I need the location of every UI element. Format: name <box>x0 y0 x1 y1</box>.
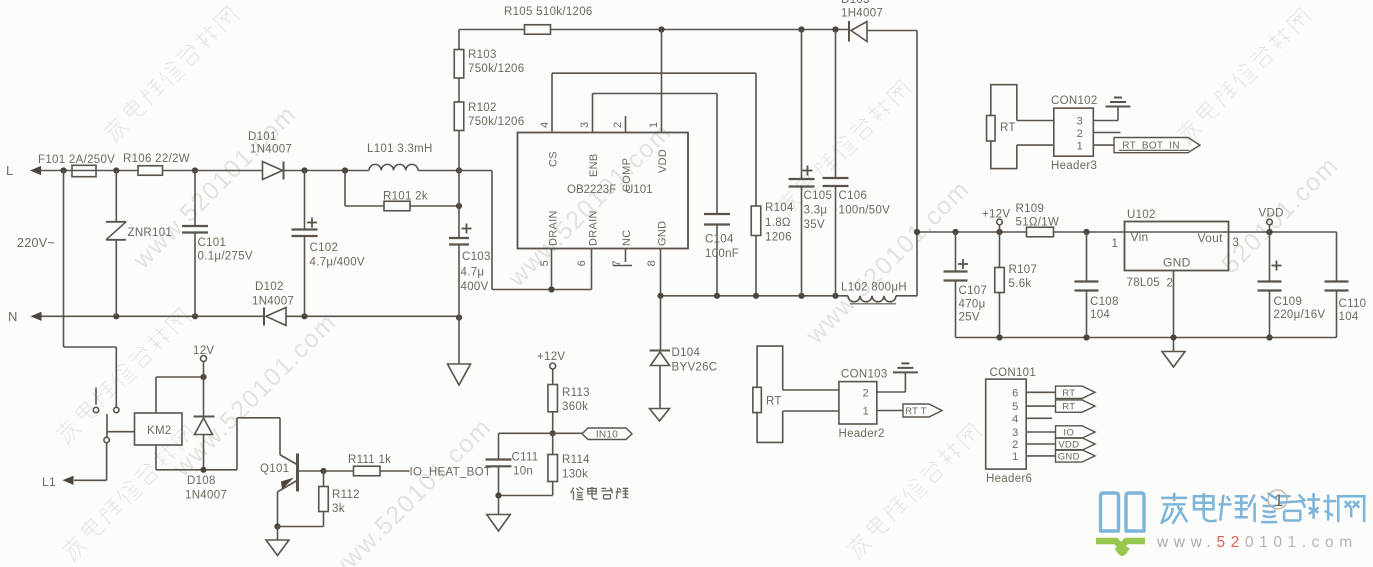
svg-text:R114: R114 <box>562 454 590 466</box>
node +12V <box>550 363 556 369</box>
wire <box>459 29 525 31</box>
svg-text:+12V: +12V <box>982 209 1010 221</box>
svg-text:8: 8 <box>646 260 658 266</box>
svg-text:RT: RT <box>1062 402 1075 413</box>
wire <box>458 30 460 50</box>
ground <box>650 409 670 422</box>
wire <box>755 236 757 296</box>
svg-text:GND: GND <box>1163 256 1191 270</box>
svg-text:360k: 360k <box>562 401 588 413</box>
svg-text:220V~: 220V~ <box>17 236 55 250</box>
svg-text:ZNR101: ZNR101 <box>128 227 173 239</box>
svg-text:GND: GND <box>657 221 669 246</box>
capacitor C105 <box>801 30 803 180</box>
wire <box>459 170 492 172</box>
svg-text:L: L <box>6 163 14 178</box>
svg-text:Header6: Header6 <box>986 473 1032 485</box>
svg-text:1206: 1206 <box>765 232 792 244</box>
pin 8 GND <box>660 249 662 296</box>
connector CON102 Header3 <box>1054 108 1094 156</box>
svg-text:100n/50V: 100n/50V <box>839 205 891 217</box>
wire <box>552 72 756 74</box>
resistor R111 <box>324 470 354 472</box>
node +12V <box>997 219 1003 225</box>
pin 4 CS <box>551 73 553 132</box>
wire <box>418 170 459 172</box>
wire <box>956 337 1337 339</box>
svg-text:78L05: 78L05 <box>1127 277 1160 289</box>
wire <box>1017 120 1054 122</box>
diode D108 <box>203 377 205 417</box>
wire <box>155 377 157 413</box>
relay KM2 coil <box>135 413 183 445</box>
diode D104 <box>660 296 662 351</box>
svg-text:1N4007: 1N4007 <box>185 490 227 502</box>
diode D103 <box>848 21 850 42</box>
svg-text:104: 104 <box>1090 309 1110 321</box>
svg-text:C104: C104 <box>705 234 734 246</box>
node 12V <box>201 356 207 362</box>
ground <box>458 318 460 365</box>
svg-text:3: 3 <box>1012 427 1018 439</box>
connector CON101 Header6 <box>986 379 1026 469</box>
wire <box>661 295 849 297</box>
svg-text:7: 7 <box>611 260 623 266</box>
svg-text:D101: D101 <box>248 131 277 143</box>
svg-text:220μ/16V: 220μ/16V <box>1274 309 1326 321</box>
svg-text:GND: GND <box>1058 452 1080 463</box>
svg-text:400V: 400V <box>461 281 489 293</box>
svg-text:0.1μ/275V: 0.1μ/275V <box>198 251 253 263</box>
svg-text:IN10: IN10 <box>596 430 618 441</box>
svg-text:D102: D102 <box>255 281 284 293</box>
svg-text:51Ω/1W: 51Ω/1W <box>1016 217 1060 229</box>
svg-text:R106 22/2W: R106 22/2W <box>123 153 190 165</box>
resistor R107 <box>999 232 1001 268</box>
svg-text:COMP: COMP <box>621 158 633 192</box>
pin 3 ENB <box>592 94 594 133</box>
svg-text:VDD: VDD <box>1259 208 1284 220</box>
wire <box>286 315 459 317</box>
svg-text:R109: R109 <box>1016 203 1045 215</box>
capacitor C107 <box>955 232 957 272</box>
svg-text:KM2: KM2 <box>147 425 172 437</box>
svg-text:1N4007: 1N4007 <box>250 144 292 156</box>
wire <box>1093 144 1114 146</box>
IC U102 78L05 regulator <box>1125 222 1229 271</box>
svg-text:DRAIN: DRAIN <box>548 210 560 246</box>
relay contact <box>114 407 119 412</box>
node VDD <box>1267 219 1273 225</box>
svg-text:3: 3 <box>579 122 591 128</box>
wire <box>63 171 65 348</box>
svg-text:www.520101.com: www.520101.com <box>167 308 342 483</box>
pin 7 NC <box>625 249 627 263</box>
resistor R112 <box>323 471 325 487</box>
svg-text:1H4007: 1H4007 <box>841 8 883 20</box>
svg-text:Vin: Vin <box>1131 230 1149 244</box>
IC U101 OB2223F PWM controller <box>518 133 689 249</box>
svg-text:+12V: +12V <box>537 351 565 363</box>
svg-text:3k: 3k <box>332 503 345 515</box>
svg-text:1.8Ω: 1.8Ω <box>765 217 791 229</box>
svg-text:2: 2 <box>612 122 624 128</box>
resistor R114 <box>552 433 554 454</box>
svg-text:N: N <box>8 309 18 324</box>
svg-text:5: 5 <box>1012 401 1018 413</box>
svg-text:R105 510k/1206: R105 510k/1206 <box>504 6 593 18</box>
wire <box>155 445 157 470</box>
wire <box>783 389 839 391</box>
svg-text:D108: D108 <box>187 475 216 487</box>
varistor ZNR101 <box>115 171 117 222</box>
svg-text:L101 3.3mH: L101 3.3mH <box>367 143 433 155</box>
svg-text:5.6k: 5.6k <box>1009 278 1032 290</box>
wire <box>163 170 263 172</box>
wire <box>917 231 1337 233</box>
resistor R105 <box>525 25 551 35</box>
wire <box>593 93 718 95</box>
ground <box>277 527 279 541</box>
svg-text:BYV26C: BYV26C <box>672 362 718 374</box>
watermark circled 1 <box>1268 490 1287 509</box>
svg-text:NC: NC <box>621 230 633 247</box>
node RT_BOT_IN <box>1114 138 1200 153</box>
svg-text:6: 6 <box>1012 387 1018 399</box>
svg-text:3: 3 <box>1233 237 1240 249</box>
svg-text:100nF: 100nF <box>705 248 739 260</box>
svg-text:R107: R107 <box>1009 264 1038 276</box>
svg-text:RT T: RT T <box>905 406 927 417</box>
logo text 家电维修资料网 <box>1161 493 1187 524</box>
wire <box>458 78 460 102</box>
resistor R104 <box>751 206 761 236</box>
ground <box>1117 107 1119 121</box>
wire <box>107 431 135 433</box>
pin 2 COMP <box>625 116 627 133</box>
svg-text:4: 4 <box>539 122 551 128</box>
svg-text:VDD: VDD <box>1058 440 1079 451</box>
ground <box>498 496 500 515</box>
wire <box>41 170 72 172</box>
wire <box>499 495 553 497</box>
svg-text:130k: 130k <box>562 469 588 481</box>
svg-text:Q101: Q101 <box>260 463 289 475</box>
pin 1 VDD <box>661 30 663 133</box>
svg-text:CON102: CON102 <box>1051 95 1098 107</box>
svg-text:2: 2 <box>863 388 869 400</box>
svg-text:1: 1 <box>1077 141 1083 153</box>
svg-text:4: 4 <box>1012 413 1018 425</box>
svg-text:750k/1206: 750k/1206 <box>468 63 524 75</box>
svg-text:Header3: Header3 <box>1051 160 1097 172</box>
svg-text:CS: CS <box>548 151 560 167</box>
logo book icon <box>1101 493 1145 531</box>
resistor R101 <box>344 171 346 207</box>
svg-text:R101 2k: R101 2k <box>383 191 428 203</box>
wire <box>42 315 265 317</box>
svg-text:1: 1 <box>648 122 660 128</box>
wire <box>867 30 917 32</box>
thermistor RT (CON102) <box>991 85 1017 121</box>
svg-text:470μ: 470μ <box>959 299 986 311</box>
node 掉电检测 label <box>571 487 584 500</box>
svg-text:1N4007: 1N4007 <box>252 296 294 308</box>
svg-text:C102: C102 <box>310 242 339 254</box>
svg-text:OB2223F: OB2223F <box>567 184 616 196</box>
svg-text:C101: C101 <box>198 237 227 249</box>
thermistor RT (CON103) <box>757 346 783 390</box>
svg-text:R104: R104 <box>765 202 794 214</box>
svg-text:D103: D103 <box>841 0 870 6</box>
svg-text:12V: 12V <box>193 345 214 357</box>
svg-text:R111 1k: R111 1k <box>348 454 391 466</box>
svg-text:C105: C105 <box>804 190 833 202</box>
capacitor C104 <box>704 213 730 215</box>
wire <box>877 410 903 412</box>
capacitor C109 <box>1269 232 1271 282</box>
svg-text:2: 2 <box>1012 439 1018 451</box>
wire <box>96 170 138 172</box>
svg-text:ENB: ENB <box>588 153 600 177</box>
diode D102 <box>263 308 265 326</box>
wire <box>458 131 460 207</box>
capacitor C103 <box>458 206 460 238</box>
svg-text:F101 2A/250V: F101 2A/250V <box>38 154 115 166</box>
svg-text:6: 6 <box>576 260 588 266</box>
transistor Q101 <box>280 455 297 465</box>
svg-text:CON101: CON101 <box>990 367 1037 379</box>
svg-text:35V: 35V <box>804 219 825 231</box>
svg-text:RT: RT <box>1000 122 1016 134</box>
svg-text:L102 800μH: L102 800μH <box>841 282 907 294</box>
capacitor C106 <box>835 30 837 179</box>
capacitor C108 <box>1086 232 1088 282</box>
svg-text:C108: C108 <box>1090 296 1119 308</box>
svg-text:R112: R112 <box>332 489 360 501</box>
pin 5 DRAIN <box>551 249 553 290</box>
wire <box>551 29 850 31</box>
resistor R109 <box>1027 227 1054 237</box>
svg-text:R102: R102 <box>468 102 497 114</box>
svg-text:C111: C111 <box>512 452 539 464</box>
fuse F101 <box>72 165 96 176</box>
svg-text:Vout: Vout <box>1198 231 1224 245</box>
connector CON103 Header2 <box>839 382 877 424</box>
resistor R106 <box>138 166 163 176</box>
svg-text:1: 1 <box>1274 491 1284 510</box>
svg-text:3: 3 <box>1077 116 1083 128</box>
resistor R103 <box>454 50 464 79</box>
svg-text:1: 1 <box>1012 451 1018 463</box>
svg-text:R103: R103 <box>468 49 497 61</box>
diode D101 <box>263 162 283 180</box>
capacitor C110 <box>1336 232 1338 282</box>
svg-text:4.7μ: 4.7μ <box>461 267 485 279</box>
pin 6 DRAIN <box>591 249 593 290</box>
svg-text:CON103: CON103 <box>841 369 888 381</box>
node RT_T <box>903 404 942 417</box>
svg-text:C106: C106 <box>839 190 868 202</box>
svg-text:RT: RT <box>1062 388 1075 399</box>
capacitor C102 <box>304 171 306 230</box>
svg-text:VDD: VDD <box>657 149 669 173</box>
svg-text:C103: C103 <box>462 251 491 263</box>
wire <box>1173 271 1175 338</box>
svg-text:C107: C107 <box>959 285 988 297</box>
svg-text:C110: C110 <box>1339 298 1367 310</box>
svg-text:10n: 10n <box>513 466 533 478</box>
wire <box>877 391 906 393</box>
ground <box>904 372 906 392</box>
svg-text:5: 5 <box>539 260 551 266</box>
svg-text:D104: D104 <box>672 347 701 359</box>
wire <box>284 170 370 172</box>
inductor L102 <box>848 296 896 302</box>
resistor R113 <box>548 385 558 412</box>
svg-text:DRAIN: DRAIN <box>588 210 600 246</box>
svg-text:4.7μ/400V: 4.7μ/400V <box>310 257 365 269</box>
svg-text:U102: U102 <box>1127 209 1156 221</box>
svg-text:750k/1206: 750k/1206 <box>468 116 524 128</box>
svg-text:104: 104 <box>1339 311 1359 323</box>
svg-text:L1: L1 <box>42 475 56 489</box>
resistor R102 <box>454 102 464 131</box>
svg-text:2: 2 <box>1167 278 1174 290</box>
svg-text:25V: 25V <box>959 312 980 324</box>
node IN10 <box>550 430 556 436</box>
svg-text:www.520101.com: www.520101.com <box>1156 534 1358 551</box>
svg-text:IO_HEAT_BOT: IO_HEAT_BOT <box>410 467 492 479</box>
svg-text:R113: R113 <box>562 387 590 399</box>
svg-text:C109: C109 <box>1274 296 1303 308</box>
capacitor C111 <box>499 432 553 434</box>
svg-text:Header2: Header2 <box>839 428 885 440</box>
svg-text:2: 2 <box>1077 128 1083 140</box>
svg-text:1: 1 <box>1112 238 1119 250</box>
svg-text:1: 1 <box>863 406 869 418</box>
capacitor C101 <box>194 171 196 227</box>
svg-text:IO: IO <box>1063 428 1074 439</box>
svg-text:3.3μ: 3.3μ <box>804 205 828 217</box>
wire <box>1093 120 1118 122</box>
ground <box>1173 338 1175 352</box>
wire <box>1093 132 1120 134</box>
inductor L101 <box>369 164 418 170</box>
svg-text:RT: RT <box>766 396 782 408</box>
